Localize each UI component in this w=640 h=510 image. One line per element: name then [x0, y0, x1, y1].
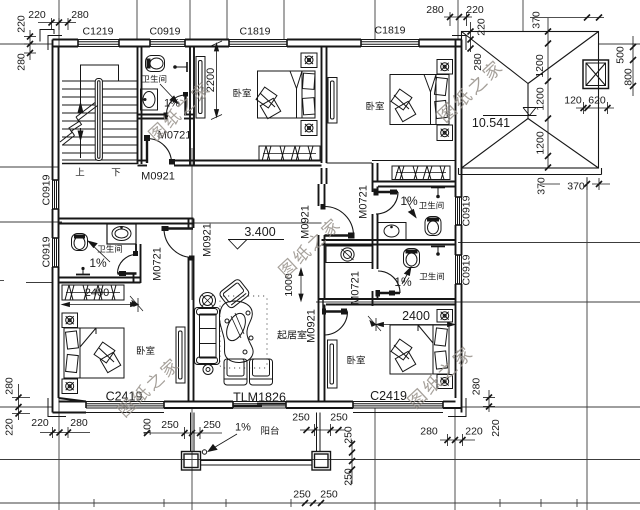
roof hip top-right: [528, 32, 599, 84]
dim text 2400 bedroom4: [402, 309, 430, 323]
svg-text:C0919: C0919: [41, 236, 53, 267]
door M0921 hall-living: [162, 226, 195, 261]
dim chain bottom-right: [440, 434, 475, 446]
window C0919 right wall lower: [456, 255, 462, 284]
rug dashed: [220, 296, 267, 368]
opening arrow bedroom4 wall: [368, 316, 381, 331]
wall stair hall south (y160-166) with door gap: [138, 161, 322, 166]
label 1% balcony: [235, 422, 251, 434]
svg-text:C1819: C1819: [240, 26, 271, 38]
label M0921 bedroom4 rot: [306, 309, 318, 343]
label C2419 bedroom4: [370, 389, 407, 403]
svg-text:2200: 2200: [205, 68, 217, 92]
dim text 2400 bedroom1: [85, 287, 109, 299]
FURNITURE: [62, 53, 453, 470]
label M0721 corridor rot: [152, 247, 164, 281]
dim chain right-top vertical: [468, 22, 474, 52]
svg-text:370: 370: [536, 177, 548, 195]
toilet bathroom4: [404, 249, 420, 268]
dim chain balcony right vertical: [349, 440, 355, 484]
label M0721 bath4 rot: [350, 271, 362, 305]
svg-text:220: 220: [31, 417, 49, 429]
wall bath1 east / bedroom2 west (x190-194): [190, 47, 194, 167]
svg-text:C2419: C2419: [370, 389, 407, 403]
dim text 250 bottom c1: [293, 489, 311, 501]
door M0721 bathroom3: [374, 189, 399, 215]
wall left exterior (with window gaps): [53, 40, 59, 413]
svg-text:C1219: C1219: [83, 26, 114, 38]
dim text 370 roof bottom h: [567, 181, 585, 193]
grid axis vertical 6: [374, 0, 376, 510]
dim text 220 bottom-right: [465, 426, 483, 438]
window C0919 left wall lower: [53, 238, 59, 267]
wall right hall connector (x372-378): [373, 163, 378, 182]
dim text 250 rot r2: [343, 468, 355, 486]
svg-text:280: 280: [71, 9, 89, 21]
opening arrow bedroom1 wall: [130, 296, 143, 311]
label 卫生间 bath4: [420, 272, 444, 280]
svg-text:M0921: M0921: [306, 309, 318, 343]
window C1219 top: [78, 40, 119, 47]
dim text 1200 r2 rot: [535, 87, 547, 111]
dim text 100 rot: [142, 418, 154, 436]
svg-text:370: 370: [531, 11, 543, 29]
nightstands bedroom3: [437, 60, 453, 141]
balcony column left: [182, 452, 201, 471]
dim 2200 bedroom2: [211, 41, 222, 120]
dim 1000 living east: [299, 269, 303, 302]
dim text 220 bl rot: [3, 418, 15, 436]
svg-text:500: 500: [615, 46, 627, 64]
svg-text:C0919: C0919: [41, 174, 53, 205]
armchair bottom 1: [224, 359, 247, 385]
wall corner detail top-left: [48, 36, 62, 51]
label 卧室 bedroom4: [347, 355, 365, 364]
dim roof top 370 line: [530, 15, 604, 21]
slope arrow bathroom3: [405, 197, 416, 218]
balcony side rails: [191, 413, 321, 452]
dim chain balcony right: [300, 424, 345, 436]
dim chain bottom-left horizontal: [40, 427, 90, 438]
dim 2400 bedroom1: [62, 298, 138, 312]
svg-text:1%: 1%: [235, 422, 251, 434]
dim text 220 left rot: [16, 15, 28, 33]
stair walk line + down arrow: [78, 128, 83, 158]
label 上: [76, 168, 85, 176]
svg-text:1200: 1200: [535, 87, 547, 111]
dim text 250 bottom c2: [320, 489, 338, 501]
dim text 1200 r1 rot: [534, 54, 546, 78]
svg-text:1%: 1%: [400, 194, 418, 208]
toilet bathroom1: [146, 56, 165, 72]
label 起居室: [277, 330, 306, 339]
vanity hall east: [326, 246, 373, 263]
svg-text:280: 280: [426, 4, 444, 16]
grid axis vertical 4 (top stub): [226, 0, 228, 40]
nightstands bedroom1: [62, 313, 78, 394]
slope arrow bathroom1: [160, 84, 178, 104]
svg-text:280: 280: [471, 378, 483, 396]
wall living east (x318-325): [319, 184, 325, 402]
dim text 280 right rot: [472, 53, 484, 71]
door-window TLM1826 bottom (living): [233, 402, 286, 409]
svg-text:220: 220: [465, 426, 483, 438]
roof hip bottom-right: [528, 119, 599, 169]
roof hip top-left: [462, 32, 529, 84]
svg-text:2400: 2400: [402, 309, 430, 323]
dim text 220 right rot: [476, 18, 488, 36]
wall bath3 north (y181-187): [372, 182, 456, 187]
stair center rail: [95, 79, 102, 161]
svg-text:620: 620: [588, 95, 606, 107]
dim text 280 right-mid rot: [471, 378, 483, 396]
label 卧室 bedroom2: [233, 88, 251, 97]
door M0921 bedroom4: [322, 309, 348, 336]
dim roof bottom 370: [540, 178, 610, 190]
grid axis horizontal C (hall south): [0, 222, 322, 223]
wardrobe hatch bedroom3 south: [392, 166, 450, 180]
wall bath3/bath4 west (x372-378): [373, 182, 378, 307]
sofa side table round: [200, 293, 216, 309]
svg-text:C0919: C0919: [461, 195, 473, 226]
svg-text:280: 280: [70, 417, 88, 429]
roof hip bottom-left: [462, 119, 529, 169]
grid axis vertical 2 (top stub): [136, 0, 138, 40]
door M0721 bathroom4: [376, 271, 401, 297]
svg-text:1%: 1%: [394, 275, 412, 289]
grid axis horizontal D (bath divider, right side): [458, 242, 640, 244]
label 卧室 bedroom3: [366, 101, 384, 110]
svg-text:250: 250: [293, 489, 311, 501]
watermark top-right: [436, 59, 504, 124]
roof outline: [462, 32, 599, 169]
sink bathroom3: [378, 223, 406, 241]
label C0919 right lower rot: [461, 254, 473, 285]
svg-text:1000: 1000: [283, 273, 295, 297]
dim right edge 500 800: [630, 36, 636, 96]
stair treads: [62, 81, 138, 153]
grid axis horizontal H: [0, 459, 640, 461]
sink bathroom1: [141, 89, 158, 110]
dim text 500 rot: [615, 46, 627, 64]
label C1819 top right: [375, 25, 406, 37]
wall hall/living west (x188-194): [189, 219, 194, 402]
window C2419 bottom (bedroom4): [353, 402, 443, 409]
wall corner detail bottom-left: [48, 398, 66, 417]
svg-text:1200: 1200: [535, 131, 547, 155]
dim text 250 balcony l2: [203, 419, 221, 431]
bed bedroom1: [64, 328, 124, 378]
label M0721 bath1: [158, 130, 192, 142]
closet bedroom3 west: [328, 78, 337, 124]
svg-text:10.541: 10.541: [472, 116, 510, 130]
label 1% bath4: [394, 275, 412, 289]
grid axis vertical 3 (top stub): [190, 0, 192, 510]
DOORS: [118, 92, 401, 335]
wall bath1 south (y114-119): [138, 115, 195, 119]
dim text 220 top-right: [466, 4, 484, 16]
dim text 1200 r3 rot: [535, 131, 547, 155]
ROOF: [228, 32, 609, 250]
label C0919 top: [150, 26, 181, 38]
svg-text:220: 220: [28, 9, 46, 21]
stair walk line + up arrow: [78, 68, 83, 112]
dim text 280 top-right: [426, 4, 444, 16]
dim text 250 rot r1: [343, 426, 355, 444]
window C1819 top (bedroom2): [229, 40, 287, 47]
label 卧室 bedroom1: [137, 346, 155, 355]
grid axis vertical 1 (left wall): [58, 0, 60, 510]
living level mark 3.400: [228, 240, 284, 250]
grid axis horizontal F (bedroom4 north, right side): [316, 301, 640, 303]
towel point bathroom1: [173, 62, 187, 72]
dim text 280 left rot: [16, 53, 28, 71]
small plant sofa corner: [203, 365, 213, 375]
watermark bottom-right: [406, 345, 474, 410]
svg-text:800: 800: [623, 68, 635, 86]
stair bottom edge: [62, 160, 138, 164]
dim text 220 bottom-left: [31, 417, 49, 429]
wall corner detail top-right: [452, 36, 466, 51]
WALLS: [40, 30, 466, 417]
roof level mark 10.541: [483, 108, 537, 116]
level text 3.400: [244, 225, 275, 239]
svg-text:C1819: C1819: [375, 25, 406, 37]
leader arrow balcony 1%: [208, 434, 237, 452]
window C2419 bottom (bedroom1): [86, 402, 164, 409]
wall hall south / living north (y218-224): [59, 219, 194, 224]
svg-text:280: 280: [3, 377, 15, 395]
wall bath2 south (y277-283): [59, 278, 141, 283]
dim text 220 bottom-right rot: [490, 419, 502, 437]
svg-text:1%: 1%: [164, 98, 180, 110]
wall bedroom3 west (x321-327): [322, 47, 327, 185]
roof ridge: [527, 84, 529, 119]
window C0919 top: [150, 40, 185, 47]
grid axis vertical 8 (roof ridge axis, top stub): [522, 0, 524, 31]
svg-text:1200: 1200: [534, 54, 546, 78]
dim text 2200: [205, 68, 217, 92]
dim chain bottom-left vertical: [12, 384, 30, 420]
wall bath3 south / bath4 north (y239-245): [322, 240, 456, 245]
grid axis horizontal A (top wall axis): [0, 43, 640, 45]
wall bath2 east (x133-141): [134, 244, 141, 283]
dim text 370 roof bottom rot: [536, 177, 548, 195]
svg-text:250: 250: [343, 468, 355, 486]
dim 2400 bedroom4: [376, 318, 455, 331]
dim chain left-top vertical: [24, 30, 36, 60]
closet bedroom2 west: [196, 57, 205, 119]
svg-text:M0921: M0921: [300, 205, 312, 239]
label M0721 bath3 rot: [358, 185, 370, 219]
dim roof vertical chain: [545, 18, 551, 171]
wall bath2 niche (x107-136): [107, 224, 136, 244]
armchair rotated top: [218, 278, 250, 309]
svg-text:M0721: M0721: [350, 271, 362, 305]
svg-text:M0921: M0921: [202, 223, 214, 257]
svg-text:3.400: 3.400: [244, 225, 275, 239]
nightstands bedroom2: [301, 53, 317, 136]
dim chain balcony left: [144, 427, 222, 439]
dim text 370 roof top rot: [531, 11, 543, 29]
label C0919 left lower rot: [41, 236, 53, 267]
wall right exterior (with window gaps): [456, 40, 462, 413]
svg-text:M0721: M0721: [358, 185, 370, 219]
wall bath4 south / bedroom4 north (y299-305): [319, 299, 456, 312]
svg-text:TLM1826: TLM1826: [233, 391, 286, 405]
svg-text:C0919: C0919: [150, 26, 181, 38]
label 下: [112, 168, 120, 176]
svg-text:280: 280: [472, 53, 484, 71]
wardrobe hatch bedroom1 north: [62, 285, 124, 300]
nightstands bedroom4: [437, 310, 453, 389]
svg-text:250: 250: [292, 412, 310, 424]
svg-text:220: 220: [3, 418, 15, 436]
dim text 250 balcony l1: [161, 419, 179, 431]
sofa three-seat: [195, 308, 220, 365]
label 1% bath3: [400, 194, 418, 208]
label C2419 bedroom1: [106, 390, 143, 404]
coffee table: [219, 301, 253, 362]
dim chimney 120 620: [576, 102, 614, 114]
svg-text:220: 220: [16, 15, 28, 33]
door M0921 stair hall: [144, 135, 175, 165]
label 阳台: [261, 426, 278, 435]
label C0919 right upper rot: [461, 195, 473, 226]
balcony drain circle: [202, 450, 206, 454]
dim right-middle 280: [483, 390, 495, 412]
svg-text:1%: 1%: [89, 256, 107, 270]
dim text 620 chimney: [588, 95, 606, 107]
window C0919 left wall upper: [53, 180, 59, 209]
dim ticks bottom center: [302, 500, 324, 506]
label M0921 living east rot: [300, 205, 312, 239]
lamp bathroom4: [431, 247, 445, 256]
label 1% bath1: [164, 98, 180, 110]
svg-text:120: 120: [564, 95, 582, 107]
balcony rails: [201, 461, 313, 466]
wall stairwell east (vertical x137-141): [138, 47, 142, 165]
label C1219: [83, 26, 114, 38]
watermark bottom-left: [116, 357, 181, 419]
bed bedroom4: [390, 325, 449, 374]
grid axis vertical 9: [586, 177, 588, 510]
svg-text:100: 100: [142, 418, 154, 436]
label C0919 left upper rot: [41, 174, 53, 205]
svg-text:220: 220: [466, 4, 484, 16]
wall top exterior (with window gaps): [53, 40, 462, 47]
roof eave lower line: [459, 168, 602, 175]
svg-text:370: 370: [567, 181, 585, 193]
svg-text:M0721: M0721: [152, 247, 164, 281]
grid axis horizontal B (hall north, left side): [0, 166, 59, 168]
grid axis horizontal J (bottom): [0, 499, 640, 507]
dim chain top-right: [444, 12, 472, 26]
dim text 220 top-left: [28, 9, 46, 21]
label 卫生间 bath2: [98, 245, 122, 253]
floor drain bathroom2: [76, 267, 90, 275]
wall right hall north / bedroom3 south (y160-166 east part): [327, 161, 456, 164]
bed bedroom3: [390, 75, 449, 125]
stair landing outline: [81, 65, 119, 81]
label 卫生间 bath3: [419, 201, 443, 209]
svg-text:220: 220: [476, 18, 488, 36]
dim text 800 rot: [623, 68, 635, 86]
balcony column right: [312, 452, 331, 471]
svg-text:280: 280: [16, 53, 28, 71]
wall corner detail bottom-right: [448, 398, 466, 417]
toilet bathroom3: [425, 217, 441, 236]
dim chain top-left: [38, 18, 76, 30]
grid axis vertical 5 (top stub): [283, 0, 285, 40]
wall bottom exterior (with window/door gaps): [53, 398, 462, 413]
dim text 250 balcony r1: [292, 412, 310, 424]
WATERMARKS: [116, 59, 504, 419]
level text 10.541: [472, 116, 510, 130]
bed bedroom2: [256, 71, 315, 119]
svg-text:280: 280: [420, 426, 438, 438]
svg-text:M0921: M0921: [141, 171, 175, 183]
slope arrow bathroom2: [88, 241, 110, 262]
svg-text:250: 250: [320, 489, 338, 501]
toilet bathroom2: [72, 234, 88, 251]
watermark stair lobby: [147, 81, 212, 143]
dim text 280 bottom-left: [70, 417, 88, 429]
chimney: [583, 60, 609, 89]
watermark center: [277, 217, 342, 279]
label TLM1826: [233, 391, 286, 405]
label M0921 hall door rot: [202, 223, 214, 257]
dim text 1000 rot: [283, 273, 295, 297]
svg-text:C0919: C0919: [461, 254, 473, 285]
dim text 280 bl rot: [3, 377, 15, 395]
window C1819 top (bedroom3): [361, 40, 419, 47]
dim text 280 top-left: [71, 9, 89, 21]
grid axis horizontal G (bottom wall axis): [0, 406, 640, 408]
svg-text:250: 250: [330, 412, 348, 424]
svg-text:250: 250: [161, 419, 179, 431]
STAIRS: [60, 65, 138, 164]
tv cabinet bedroom1 east: [176, 327, 185, 383]
closet bedroom4 west: [328, 340, 338, 388]
door M0921 living-east hall: [321, 204, 355, 239]
stair break line: [60, 103, 98, 146]
label 1% bath2: [89, 256, 107, 270]
label C1819 top mid: [240, 26, 271, 38]
dim text 120 chimney: [564, 95, 582, 107]
door M0721 bathroom2: [118, 251, 139, 276]
label 卫生间 bath1: [142, 75, 166, 83]
wall corner detail top-left outside mark: [40, 30, 54, 42]
slope arrow bathroom4: [402, 267, 411, 284]
grid axis horizontal E (left stub): [0, 281, 53, 283]
dim text 250 balcony r2: [330, 412, 348, 424]
grid axis vertical 7 (right wall): [455, 0, 458, 510]
wardrobe hatch bedroom2 south: [259, 146, 320, 161]
svg-text:250: 250: [343, 426, 355, 444]
svg-text:220: 220: [490, 419, 502, 437]
sink bathroom2: [112, 226, 131, 240]
lamp bathroom3: [431, 188, 445, 199]
label M0921 hall: [141, 171, 175, 183]
WINDOWS: [53, 40, 462, 409]
svg-text:2400: 2400: [85, 287, 109, 299]
dim text 280 bottom-right: [420, 426, 438, 438]
armchair bottom 2: [250, 359, 273, 385]
window C0919 right wall upper: [456, 197, 462, 225]
door M0721 bathroom1: [164, 92, 189, 120]
svg-text:250: 250: [203, 419, 221, 431]
